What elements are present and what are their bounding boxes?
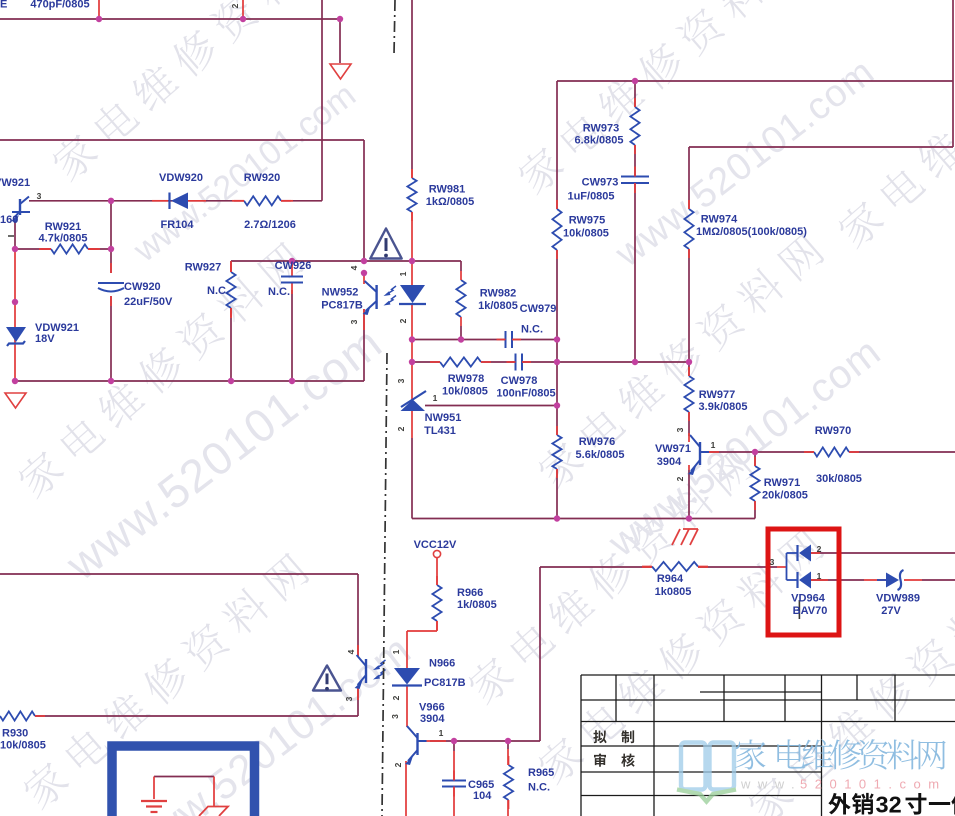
svg-text:RW970: RW970 (815, 425, 851, 437)
svg-text:TL431: TL431 (424, 425, 456, 437)
svg-text:1: 1 (439, 728, 444, 738)
svg-text:RW978: RW978 (448, 373, 484, 385)
svg-text:3: 3 (349, 319, 359, 324)
svg-text:NW951: NW951 (425, 412, 462, 424)
svg-text:3.9k/0805: 3.9k/0805 (699, 401, 748, 413)
svg-text:RW975: RW975 (569, 215, 605, 227)
svg-text:10k/0805: 10k/0805 (563, 228, 609, 240)
svg-text:R930: R930 (2, 728, 28, 740)
svg-text:RW971: RW971 (764, 477, 800, 489)
svg-text:1kΩ/0805: 1kΩ/0805 (426, 196, 475, 208)
svg-text:NW952: NW952 (322, 287, 359, 299)
svg-text:CW973: CW973 (582, 177, 619, 189)
svg-text:2: 2 (391, 695, 401, 700)
svg-text:1k/0805: 1k/0805 (457, 599, 497, 611)
svg-text:10k/0805: 10k/0805 (0, 740, 46, 752)
svg-text:CW979: CW979 (520, 303, 557, 315)
svg-text:PC817B: PC817B (321, 300, 363, 312)
svg-text:V966: V966 (419, 702, 445, 714)
svg-text:RW973: RW973 (583, 123, 619, 135)
svg-text:4.7k/0805: 4.7k/0805 (39, 233, 88, 245)
svg-text:1k0805: 1k0805 (655, 586, 692, 598)
svg-text:VDW989: VDW989 (876, 593, 920, 605)
svg-text:RW927: RW927 (185, 262, 221, 274)
svg-text:R965: R965 (528, 767, 554, 779)
svg-text:1k/0805: 1k/0805 (478, 300, 518, 312)
svg-text:3: 3 (770, 557, 775, 567)
svg-text:BAV70: BAV70 (793, 605, 828, 617)
svg-text:3: 3 (344, 696, 354, 701)
svg-text:CW978: CW978 (501, 375, 538, 387)
svg-text:RW920: RW920 (244, 172, 280, 184)
svg-text:RW976: RW976 (579, 436, 615, 448)
svg-text:RW921: RW921 (45, 221, 81, 233)
svg-text:22uF/50V: 22uF/50V (124, 296, 173, 308)
svg-text:2: 2 (393, 762, 403, 767)
svg-text:CW926: CW926 (275, 260, 312, 272)
svg-text:3904: 3904 (420, 713, 445, 725)
svg-text:1: 1 (711, 440, 716, 450)
svg-text:RW974: RW974 (701, 214, 738, 226)
svg-text:1MΩ/0805(100k/0805): 1MΩ/0805(100k/0805) (696, 226, 807, 238)
svg-text:R966: R966 (457, 587, 483, 599)
svg-text:104: 104 (473, 790, 492, 802)
svg-text:www.: www. (740, 777, 802, 792)
svg-text:N.C.: N.C. (207, 285, 229, 297)
svg-text:2: 2 (230, 3, 240, 8)
svg-text:2: 2 (675, 476, 685, 481)
svg-text:18V: 18V (35, 333, 55, 345)
svg-text:VW971: VW971 (655, 443, 691, 455)
svg-text:N.C.: N.C. (268, 286, 290, 298)
svg-text:2: 2 (398, 318, 408, 323)
svg-text:RW981: RW981 (429, 184, 465, 196)
svg-text:470pF/0805: 470pF/0805 (30, 0, 89, 11)
svg-text:1: 1 (433, 393, 438, 403)
svg-text:3: 3 (37, 191, 42, 201)
svg-text:2: 2 (817, 544, 822, 554)
svg-text:1: 1 (398, 271, 408, 276)
svg-text:N.C.: N.C. (521, 324, 543, 336)
svg-text:1: 1 (817, 571, 822, 581)
svg-text:160: 160 (0, 214, 18, 226)
svg-text:CW920: CW920 (124, 281, 161, 293)
svg-text:27V: 27V (881, 605, 901, 617)
svg-text:2.7Ω/1206: 2.7Ω/1206 (244, 219, 296, 231)
svg-text:VDW920: VDW920 (159, 172, 203, 184)
svg-text:2: 2 (396, 426, 406, 431)
svg-text:VCC12V: VCC12V (414, 539, 457, 551)
svg-text:N966: N966 (429, 658, 455, 670)
svg-text:20k/0805: 20k/0805 (762, 490, 808, 502)
svg-text:32: 32 (876, 792, 902, 816)
svg-text:RW977: RW977 (699, 389, 735, 401)
svg-text:520101.com: 520101.com (800, 777, 947, 792)
svg-text:100nF/0805: 100nF/0805 (496, 388, 555, 400)
svg-text:N.C.: N.C. (528, 782, 550, 794)
svg-text:3904: 3904 (657, 456, 682, 468)
svg-text:30k/0805: 30k/0805 (816, 473, 862, 485)
svg-text:5.6k/0805: 5.6k/0805 (576, 449, 625, 461)
svg-text:3: 3 (390, 714, 400, 719)
svg-text:3: 3 (675, 427, 685, 432)
svg-text:R964: R964 (657, 573, 684, 585)
svg-text:4: 4 (346, 649, 356, 654)
svg-text:VD964: VD964 (791, 593, 826, 605)
svg-text:PC817B: PC817B (424, 677, 466, 689)
svg-text:FR104: FR104 (160, 219, 194, 231)
svg-text:RW982: RW982 (480, 288, 516, 300)
svg-text:VW921: VW921 (0, 177, 30, 189)
svg-text:3: 3 (396, 378, 406, 383)
svg-text:1uF/0805: 1uF/0805 (567, 191, 614, 203)
svg-text:E: E (0, 0, 7, 11)
svg-text:4: 4 (349, 265, 359, 270)
svg-text:6.8k/0805: 6.8k/0805 (575, 135, 624, 147)
svg-text:10k/0805: 10k/0805 (442, 386, 488, 398)
svg-text:1: 1 (391, 649, 401, 654)
